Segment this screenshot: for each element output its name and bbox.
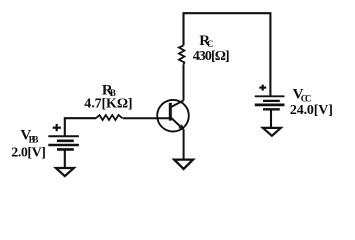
svg-text:24.0[V]: 24.0[V] (290, 103, 333, 118)
svg-text:4.7[KΩ]: 4.7[KΩ] (84, 96, 132, 111)
svg-text:BB: BB (29, 135, 39, 145)
svg-text:C: C (207, 39, 214, 49)
svg-text:430[Ω]: 430[Ω] (193, 49, 230, 64)
svg-text:2.0[V]: 2.0[V] (11, 145, 46, 160)
svg-text:CC: CC (301, 94, 312, 104)
